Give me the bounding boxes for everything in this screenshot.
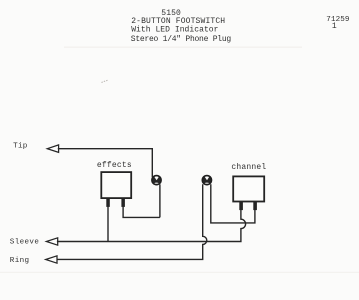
LED D1 bottom clear <box>153 183 160 188</box>
svg-text:Sleeve: Sleeve <box>10 239 40 247</box>
LED D2 top notch <box>204 176 209 180</box>
effects switch pin right <box>121 199 125 207</box>
faint fold line lower <box>0 272 359 273</box>
channel switch pin right <box>253 202 257 210</box>
Tip arrowhead <box>47 145 58 153</box>
svg-text:With LED Indicator: With LED Indicator <box>131 26 218 35</box>
LED D2 bottom clear <box>204 183 211 188</box>
wire effects left pin to Sleeve bus <box>107 207 109 242</box>
svg-text:effects: effects <box>97 161 132 170</box>
wire LED D1 cathode down <box>159 184 161 217</box>
effects switch pin left <box>106 199 110 207</box>
Sleeve wire to channel left pin with hop over LED D2 wire <box>57 210 246 242</box>
LED D1 body fill <box>153 176 161 184</box>
Sleeve arrowhead <box>46 238 57 245</box>
LED D2 outline <box>202 176 211 185</box>
Ring arrowhead <box>46 256 57 263</box>
wire Tip line to LED D1 anode <box>58 149 153 178</box>
LED D2 body fill <box>203 176 211 184</box>
channel switch pin left <box>239 202 243 210</box>
svg-text:channel: channel <box>231 163 266 172</box>
svg-text:1: 1 <box>332 22 337 31</box>
svg-text:Stereo 1/4" Phone Plug: Stereo 1/4" Phone Plug <box>131 35 232 44</box>
effects footswitch body <box>101 172 131 198</box>
svg-text:71259: 71259 <box>326 16 350 24</box>
LED D1 top notch <box>154 176 159 180</box>
LED D1 outline <box>152 176 161 185</box>
svg-text:Ring: Ring <box>10 257 30 265</box>
wire LED D2 right lead to channel right pin <box>211 184 255 223</box>
svg-text:Tip: Tip <box>13 142 28 150</box>
faint fold line upper <box>64 47 302 48</box>
scan smudge <box>102 80 109 83</box>
wire LED D2 left lead to Ring line with hop over Sleeve bus <box>57 184 207 259</box>
wire effects right pin to LED D1 cathode <box>123 207 160 218</box>
channel footswitch body <box>233 176 264 201</box>
